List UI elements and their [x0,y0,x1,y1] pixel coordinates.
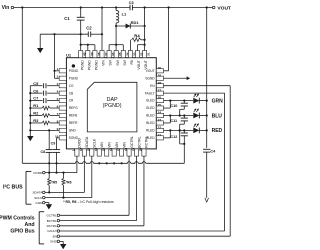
svg-text:REFG: REFG [69,106,78,110]
svg-text:C10: C10 [170,104,177,108]
svg-text:SDATA: SDATA [85,136,89,148]
svg-text:PWM Controls: PWM Controls [0,216,35,222]
svg-text:17: 17 [116,147,120,151]
svg-text:13: 13 [87,147,91,151]
svg-text:R4: R4 [134,33,140,38]
svg-text:C12: C12 [170,135,177,139]
svg-text:RLED: RLED [146,129,155,133]
svg-text:GLED: GLED [146,99,155,103]
svg-text:CR: CR [69,99,74,103]
svg-text:VIN: VIN [108,142,112,148]
svg-text:21: 21 [158,133,162,137]
svg-text:BCTRL: BCTRL [137,136,141,148]
svg-text:24: 24 [158,111,162,115]
svg-text:Vin: Vin [2,5,10,11]
svg-text:SDATA: SDATA [32,191,43,195]
svg-text:C2: C2 [86,26,92,31]
svg-text:U1: U1 [66,52,72,57]
svg-text:VIN: VIN [102,60,106,66]
svg-text:SW: SW [109,59,113,65]
svg-text:16: 16 [109,147,113,151]
svg-text:GPIO Bus: GPIO Bus [10,229,34,235]
svg-text:* R5, R6 – I²C Pull-high resis: * R5, R6 – I²C Pull-high resistors [63,200,114,204]
svg-text:R1: R1 [33,103,39,108]
svg-text:VOUT: VOUT [144,60,148,69]
svg-text:GLED: GLED [146,106,155,110]
svg-text:EN: EN [150,84,155,88]
svg-text:*R5: *R5 [51,180,57,184]
svg-text:SGND: SGND [145,76,155,80]
svg-text:REFB: REFB [69,114,78,118]
svg-text:19: 19 [131,147,135,151]
svg-text:31: 31 [147,52,151,56]
svg-text:SW: SW [116,59,120,65]
svg-text:C5: C5 [33,81,39,86]
svg-text:EN: EN [53,234,57,238]
svg-text:PGND: PGND [80,60,84,70]
svg-text:22: 22 [158,126,162,130]
svg-text:I²C BUS: I²C BUS [3,184,23,190]
svg-text:VIN: VIN [122,142,126,148]
svg-text:PGND: PGND [87,60,91,70]
svg-text:FAULT: FAULT [145,91,155,95]
svg-text:GCTRL: GCTRL [46,214,57,218]
svg-text:And: And [25,222,35,228]
svg-text:25: 25 [158,103,162,107]
svg-text:26: 26 [158,96,162,100]
svg-text:GCTRL: GCTRL [130,136,134,148]
svg-text:C3: C3 [129,1,134,5]
svg-text:C1: C1 [64,16,70,21]
svg-text:14: 14 [94,147,98,151]
svg-text:(PGND): (PGND) [103,103,122,109]
svg-text:VIN: VIN [115,142,119,148]
svg-text:RED: RED [212,128,223,134]
svg-text:VIN: VIN [100,142,104,148]
svg-text:GND: GND [35,201,43,205]
svg-text:29: 29 [158,73,162,77]
svg-text:C4: C4 [210,149,216,153]
svg-text:DVDD: DVDD [78,138,82,148]
svg-text:PGND: PGND [95,60,99,70]
svg-text:R2: R2 [33,111,39,116]
svg-text:R3: R3 [33,118,39,123]
svg-text:RD1: RD1 [131,20,140,25]
svg-text:SCLK: SCLK [34,196,43,200]
svg-text:BCTRL: BCTRL [47,219,57,223]
svg-text:BLED: BLED [146,114,155,118]
svg-text:11: 11 [72,148,76,152]
svg-text:15: 15 [102,147,106,151]
svg-text:BLED: BLED [146,121,155,125]
svg-text:18: 18 [124,147,128,151]
svg-text:28: 28 [158,81,162,85]
svg-text:C7: C7 [33,96,39,101]
svg-text:C11: C11 [170,119,177,123]
svg-text:30: 30 [158,66,162,70]
svg-text:20: 20 [139,147,143,151]
svg-text:GND: GND [50,240,58,244]
svg-text:RCTRL: RCTRL [47,224,58,228]
svg-text:FB: FB [130,59,134,64]
svg-text:L1: L1 [122,11,127,16]
svg-text:REFR: REFR [69,121,78,125]
svg-text:C6: C6 [33,88,39,93]
svg-text:23: 23 [158,118,162,122]
svg-text:FAULT: FAULT [47,229,57,233]
svg-text:12: 12 [79,147,83,151]
svg-text:DVDD: DVDD [34,171,44,175]
svg-text:VOUT: VOUT [217,5,231,11]
svg-text:CG: CG [69,84,74,88]
svg-text:*R6: *R6 [66,180,72,184]
svg-text:C9: C9 [51,141,56,145]
svg-text:SCLK: SCLK [93,138,97,148]
svg-text:C8: C8 [41,150,46,154]
svg-text:CB: CB [69,91,73,95]
svg-text:SW: SW [123,59,127,65]
svg-text:GND: GND [69,129,77,133]
svg-text:PGND: PGND [69,76,79,80]
svg-text:RCTRL: RCTRL [145,136,149,148]
svg-text:27: 27 [158,88,162,92]
svg-text:VOUT: VOUT [137,60,141,69]
svg-text:PGND: PGND [69,69,79,73]
svg-text:GRN: GRN [212,98,224,104]
svg-text:BLU: BLU [212,113,223,119]
